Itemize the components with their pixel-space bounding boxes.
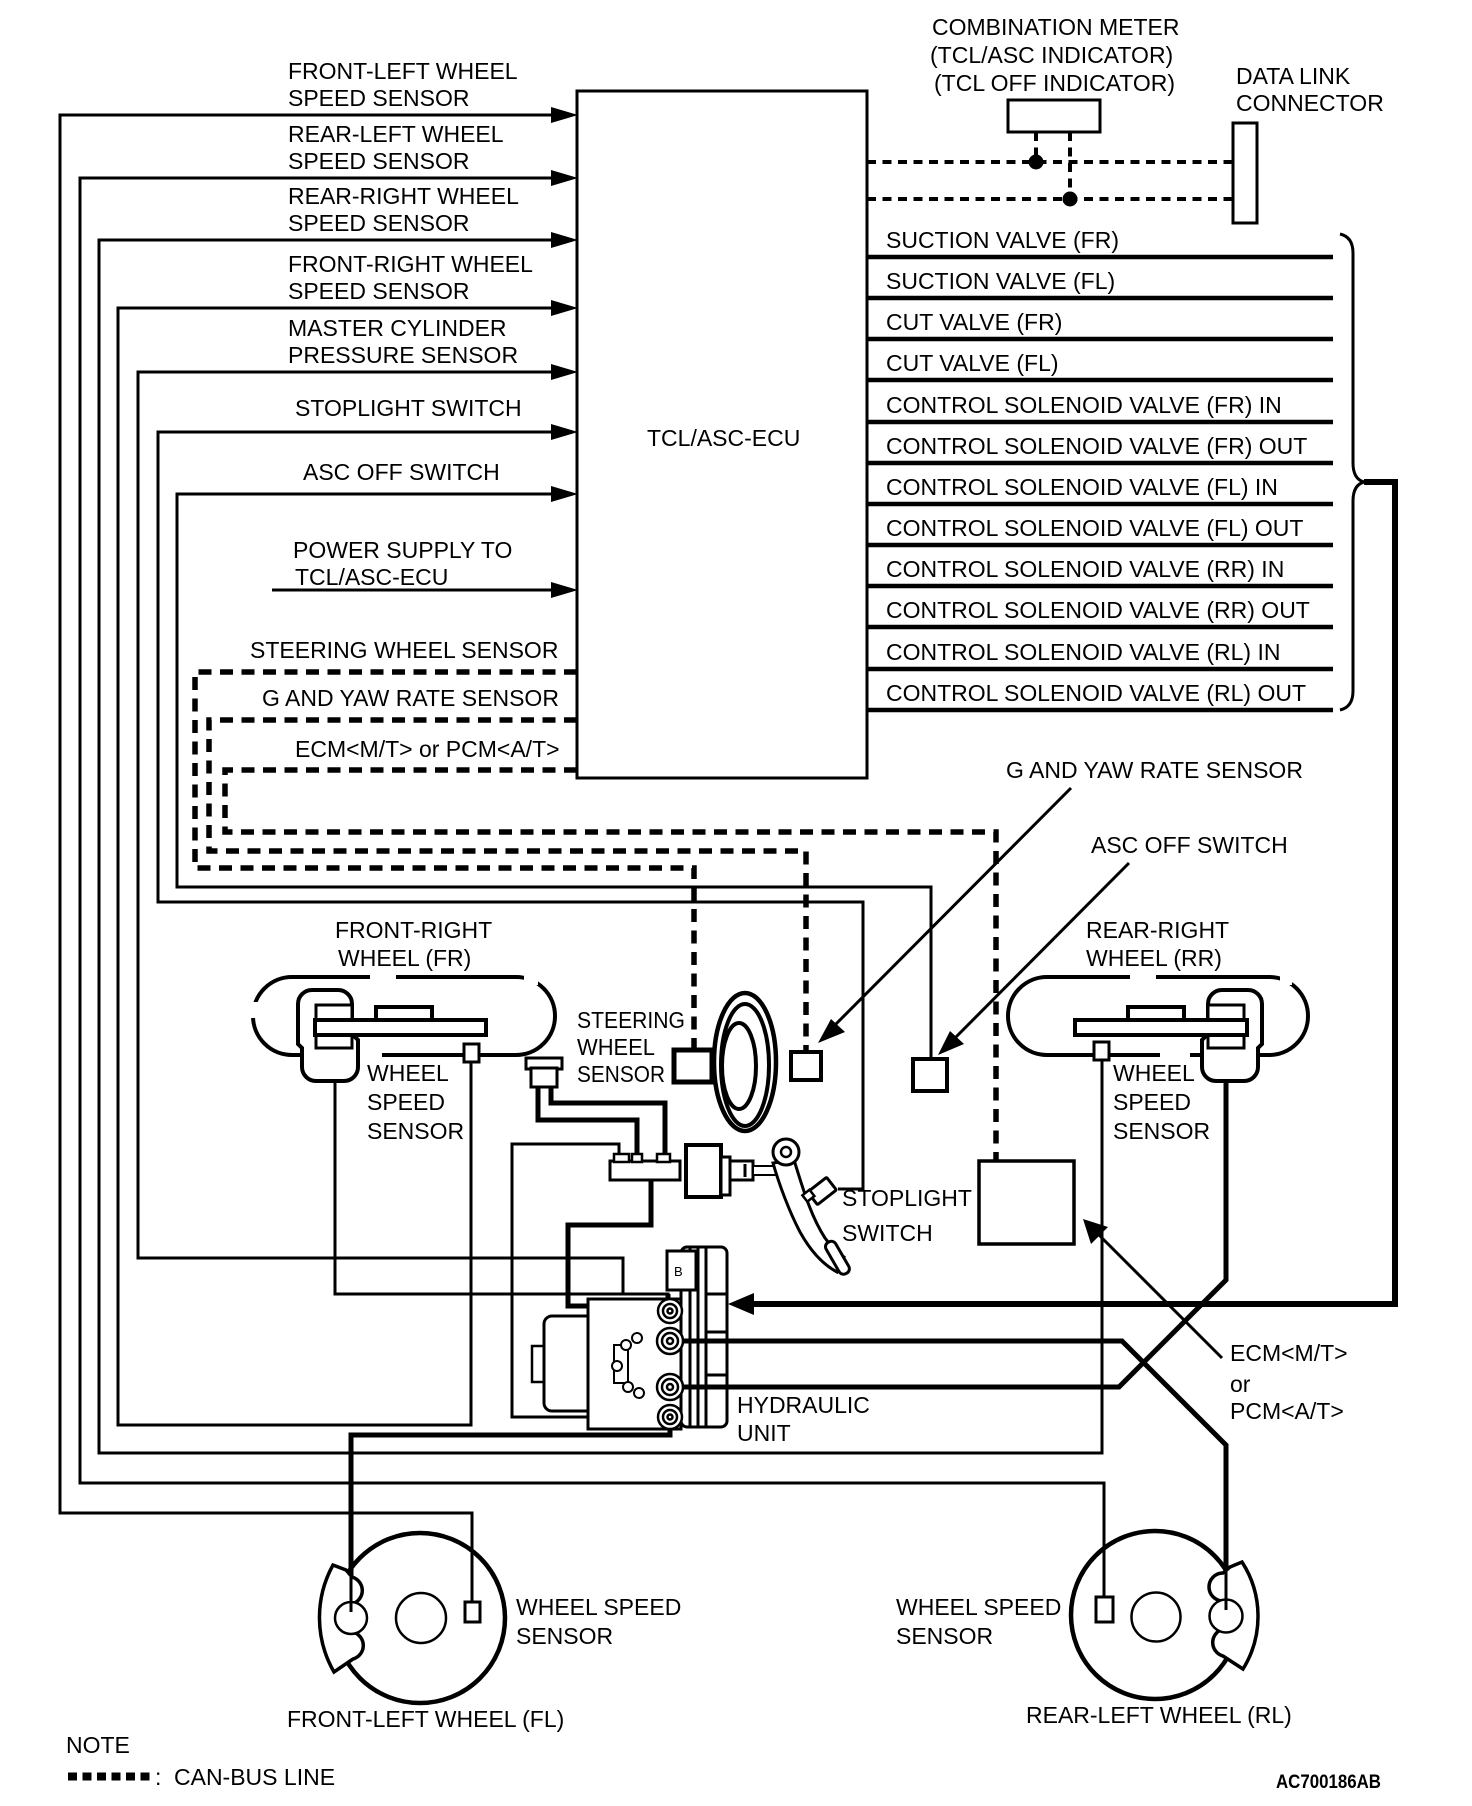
svg-text:G AND YAW RATE SENSOR: G AND YAW RATE SENSOR: [262, 685, 559, 711]
svg-text:FRONT-RIGHT WHEEL: FRONT-RIGHT WHEEL: [288, 251, 533, 277]
svg-text:REAR-LEFT WHEEL (RL): REAR-LEFT WHEEL (RL): [1026, 1702, 1292, 1728]
svg-text:SENSOR: SENSOR: [367, 1118, 464, 1144]
svg-text:REAR-RIGHT: REAR-RIGHT: [1086, 917, 1229, 943]
svg-text:CONTROL SOLENOID VALVE (FL) OU: CONTROL SOLENOID VALVE (FL) OUT: [886, 515, 1303, 541]
svg-text:UNIT: UNIT: [737, 1420, 791, 1446]
svg-text:B: B: [674, 1264, 683, 1279]
svg-text:CUT VALVE (FR): CUT VALVE (FR): [886, 309, 1062, 335]
svg-text:WHEEL SPEED: WHEEL SPEED: [896, 1594, 1061, 1620]
svg-text:SPEED SENSOR: SPEED SENSOR: [288, 85, 470, 111]
svg-text:STOPLIGHT SWITCH: STOPLIGHT SWITCH: [295, 395, 522, 421]
svg-text:CONTROL SOLENOID VALVE (FR) OU: CONTROL SOLENOID VALVE (FR) OUT: [886, 433, 1307, 459]
svg-text:SENSOR: SENSOR: [577, 1061, 665, 1087]
svg-text:WHEEL: WHEEL: [1113, 1060, 1195, 1086]
svg-text:FRONT-LEFT WHEEL: FRONT-LEFT WHEEL: [288, 58, 518, 84]
svg-text:SUCTION VALVE (FL): SUCTION VALVE (FL): [886, 268, 1115, 294]
svg-text:SUCTION VALVE (FR): SUCTION VALVE (FR): [886, 227, 1119, 253]
svg-text:FRONT-LEFT WHEEL (FL): FRONT-LEFT WHEEL (FL): [287, 1706, 564, 1732]
svg-text:REAR-LEFT WHEEL: REAR-LEFT WHEEL: [288, 121, 504, 147]
svg-text:CONTROL SOLENOID VALVE (RL) IN: CONTROL SOLENOID VALVE (RL) IN: [886, 639, 1280, 665]
svg-text:CONTROL SOLENOID VALVE (RL) OU: CONTROL SOLENOID VALVE (RL) OUT: [886, 680, 1306, 706]
svg-text:SPEED SENSOR: SPEED SENSOR: [288, 278, 470, 304]
svg-text:(TCL/ASC INDICATOR): (TCL/ASC INDICATOR): [930, 42, 1173, 68]
svg-text:STOPLIGHT: STOPLIGHT: [842, 1185, 972, 1211]
svg-text:SPEED SENSOR: SPEED SENSOR: [288, 210, 470, 236]
svg-text:SENSOR: SENSOR: [516, 1623, 613, 1649]
svg-text:CONTROL SOLENOID VALVE (FR) IN: CONTROL SOLENOID VALVE (FR) IN: [886, 392, 1282, 418]
svg-text:G AND YAW RATE SENSOR: G AND YAW RATE SENSOR: [1006, 757, 1303, 783]
svg-text:ECM<M/T> or PCM<A/T>: ECM<M/T> or PCM<A/T>: [295, 736, 560, 762]
svg-text:SPEED SENSOR: SPEED SENSOR: [288, 148, 470, 174]
svg-text:SENSOR: SENSOR: [896, 1623, 993, 1649]
svg-text:or: or: [1230, 1371, 1251, 1397]
svg-text:SENSOR: SENSOR: [1113, 1118, 1210, 1144]
svg-text:CAN-BUS LINE: CAN-BUS LINE: [174, 1764, 335, 1790]
svg-text:DATA LINK: DATA LINK: [1236, 63, 1351, 89]
svg-text:STEERING: STEERING: [577, 1007, 685, 1033]
svg-text:WHEEL SPEED: WHEEL SPEED: [516, 1594, 681, 1620]
svg-text:WHEEL: WHEEL: [577, 1034, 655, 1060]
svg-text:CONTROL SOLENOID VALVE (RR) OU: CONTROL SOLENOID VALVE (RR) OUT: [886, 597, 1310, 623]
svg-text:ECM<M/T>: ECM<M/T>: [1230, 1340, 1348, 1366]
svg-text:POWER SUPPLY TO: POWER SUPPLY TO: [293, 537, 512, 563]
svg-text:CONTROL SOLENOID VALVE (RR) IN: CONTROL SOLENOID VALVE (RR) IN: [886, 556, 1284, 582]
svg-text:(TCL OFF INDICATOR): (TCL OFF INDICATOR): [934, 70, 1175, 96]
svg-text:HYDRAULIC: HYDRAULIC: [737, 1392, 870, 1418]
svg-text:NOTE: NOTE: [66, 1732, 130, 1758]
svg-text:COMBINATION METER: COMBINATION METER: [932, 14, 1179, 40]
svg-text:MASTER CYLINDER: MASTER CYLINDER: [288, 315, 507, 341]
svg-text:TCL/ASC-ECU: TCL/ASC-ECU: [647, 425, 800, 451]
svg-text:SPEED: SPEED: [367, 1089, 445, 1115]
svg-text:AC700186AB: AC700186AB: [1276, 1772, 1381, 1793]
svg-text:SWITCH: SWITCH: [842, 1220, 933, 1246]
svg-text:ASC OFF SWITCH: ASC OFF SWITCH: [1091, 832, 1288, 858]
svg-text:STEERING WHEEL SENSOR: STEERING WHEEL SENSOR: [250, 637, 558, 663]
svg-text:PRESSURE SENSOR: PRESSURE SENSOR: [288, 342, 518, 368]
svg-text:WHEEL: WHEEL: [367, 1060, 449, 1086]
svg-text:CUT VALVE (FL): CUT VALVE (FL): [886, 350, 1059, 376]
svg-text:ASC OFF SWITCH: ASC OFF SWITCH: [303, 459, 500, 485]
svg-text:WHEEL (FR): WHEEL (FR): [338, 945, 471, 971]
svg-text:TCL/ASC-ECU: TCL/ASC-ECU: [295, 564, 448, 590]
svg-text:PCM<A/T>: PCM<A/T>: [1230, 1398, 1344, 1424]
svg-text:WHEEL (RR): WHEEL (RR): [1086, 945, 1222, 971]
svg-text:CONNECTOR: CONNECTOR: [1236, 90, 1384, 116]
svg-text:CONTROL SOLENOID VALVE (FL) IN: CONTROL SOLENOID VALVE (FL) IN: [886, 474, 1278, 500]
svg-text:REAR-RIGHT WHEEL: REAR-RIGHT WHEEL: [288, 183, 519, 209]
svg-text::: :: [155, 1764, 161, 1790]
svg-text:FRONT-RIGHT: FRONT-RIGHT: [335, 917, 492, 943]
svg-text:SPEED: SPEED: [1113, 1089, 1191, 1115]
